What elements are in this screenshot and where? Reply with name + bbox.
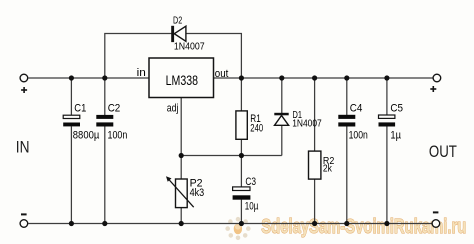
- trimmer P2: [166, 176, 194, 207]
- wire C2 upper: [104, 78, 106, 115]
- wire P2 lower: [180, 208, 182, 224]
- wire D1 upper: [281, 78, 283, 113]
- junction C1 top: [69, 75, 74, 80]
- capacitor C1: [63, 115, 80, 126]
- wire C2 lower: [104, 126, 106, 223]
- wire R1 lower: [240, 139, 242, 155]
- wire C4 upper: [346, 78, 348, 115]
- svg-text:OUT: OUT: [429, 143, 457, 161]
- junction R1 top: [239, 75, 244, 80]
- svg-text:D2: D2: [173, 15, 183, 26]
- terminal out+: [433, 74, 441, 82]
- svg-text:10µ: 10µ: [245, 201, 259, 213]
- label plus in: [21, 87, 27, 93]
- junction R2 bottom: [312, 221, 317, 226]
- terminal in-: [20, 220, 28, 228]
- terminal out-: [432, 220, 440, 228]
- junction R1-C3: [239, 153, 244, 158]
- junction adj-P2: [179, 153, 184, 158]
- svg-text:C4: C4: [350, 102, 363, 114]
- svg-text:out: out: [215, 68, 229, 80]
- wire top rail right (LM338 out to out+): [214, 77, 433, 79]
- svg-text:4k3: 4k3: [190, 187, 205, 199]
- junction C4 bottom: [344, 221, 349, 226]
- regulator U1 LM338 box: [149, 58, 214, 98]
- wire C3 lower: [240, 200, 242, 224]
- wire C5 upper: [386, 78, 388, 115]
- wire adj pin: [180, 98, 182, 156]
- svg-text:in: in: [137, 67, 146, 79]
- wire C4 lower: [346, 126, 348, 223]
- junction C2 top: [102, 75, 107, 80]
- watermark logo gear: [225, 217, 250, 240]
- svg-text:C3: C3: [245, 176, 256, 188]
- wire R1 upper: [240, 78, 242, 111]
- svg-text:C1: C1: [74, 102, 86, 114]
- wire bottom rail (in- to out-): [28, 223, 431, 225]
- resistor R1: [236, 111, 247, 139]
- wire R2 lower: [314, 179, 316, 224]
- junction D1 top: [279, 75, 284, 80]
- svg-text:1N4007: 1N4007: [174, 42, 205, 53]
- svg-text:1N4007: 1N4007: [292, 118, 322, 129]
- label minus in: [21, 213, 27, 215]
- wire adj horizontal: [181, 155, 282, 157]
- svg-text:2k: 2k: [323, 162, 333, 174]
- junction C1 bottom: [69, 221, 74, 226]
- svg-text:8800µ: 8800µ: [73, 130, 100, 142]
- wire C5 lower: [386, 126, 388, 223]
- svg-text:240: 240: [250, 122, 263, 134]
- label minus out: [433, 211, 439, 213]
- svg-text:C5: C5: [390, 102, 403, 114]
- capacitor C2: [96, 115, 113, 127]
- wire D1 lower: [281, 125, 283, 155]
- svg-text:1µ: 1µ: [390, 129, 401, 141]
- terminal in+: [20, 74, 28, 82]
- svg-text:IN: IN: [16, 138, 30, 156]
- capacitor C5: [379, 115, 396, 127]
- wire D2 branch: [105, 34, 242, 79]
- label plus out: [430, 86, 436, 92]
- wire top rail left (in+ to LM338 in): [28, 77, 149, 79]
- svg-text:100n: 100n: [108, 129, 128, 141]
- diode D2: [171, 26, 186, 42]
- capacitor C3: [233, 187, 251, 200]
- junction C3 bottom: [239, 221, 244, 226]
- svg-text:100n: 100n: [349, 129, 368, 141]
- diode D1: [274, 113, 288, 126]
- junction C4 top: [344, 75, 349, 80]
- junction C5 top: [384, 75, 389, 80]
- wire P2 upper: [180, 156, 182, 180]
- wire C1 upper: [70, 78, 72, 115]
- wire R2 upper: [314, 78, 316, 151]
- svg-text:adj: adj: [167, 103, 179, 115]
- junction C2 bottom: [102, 221, 107, 226]
- wire C3 upper: [240, 156, 242, 188]
- resistor R2: [309, 151, 321, 179]
- capacitor C4: [338, 115, 355, 127]
- junction C5 bottom: [384, 221, 389, 226]
- svg-text:LM338: LM338: [166, 73, 198, 88]
- junction R2 top: [312, 75, 317, 80]
- wire C1 lower: [70, 126, 72, 223]
- svg-text:C2: C2: [108, 102, 121, 114]
- junction P2 bottom: [179, 221, 184, 226]
